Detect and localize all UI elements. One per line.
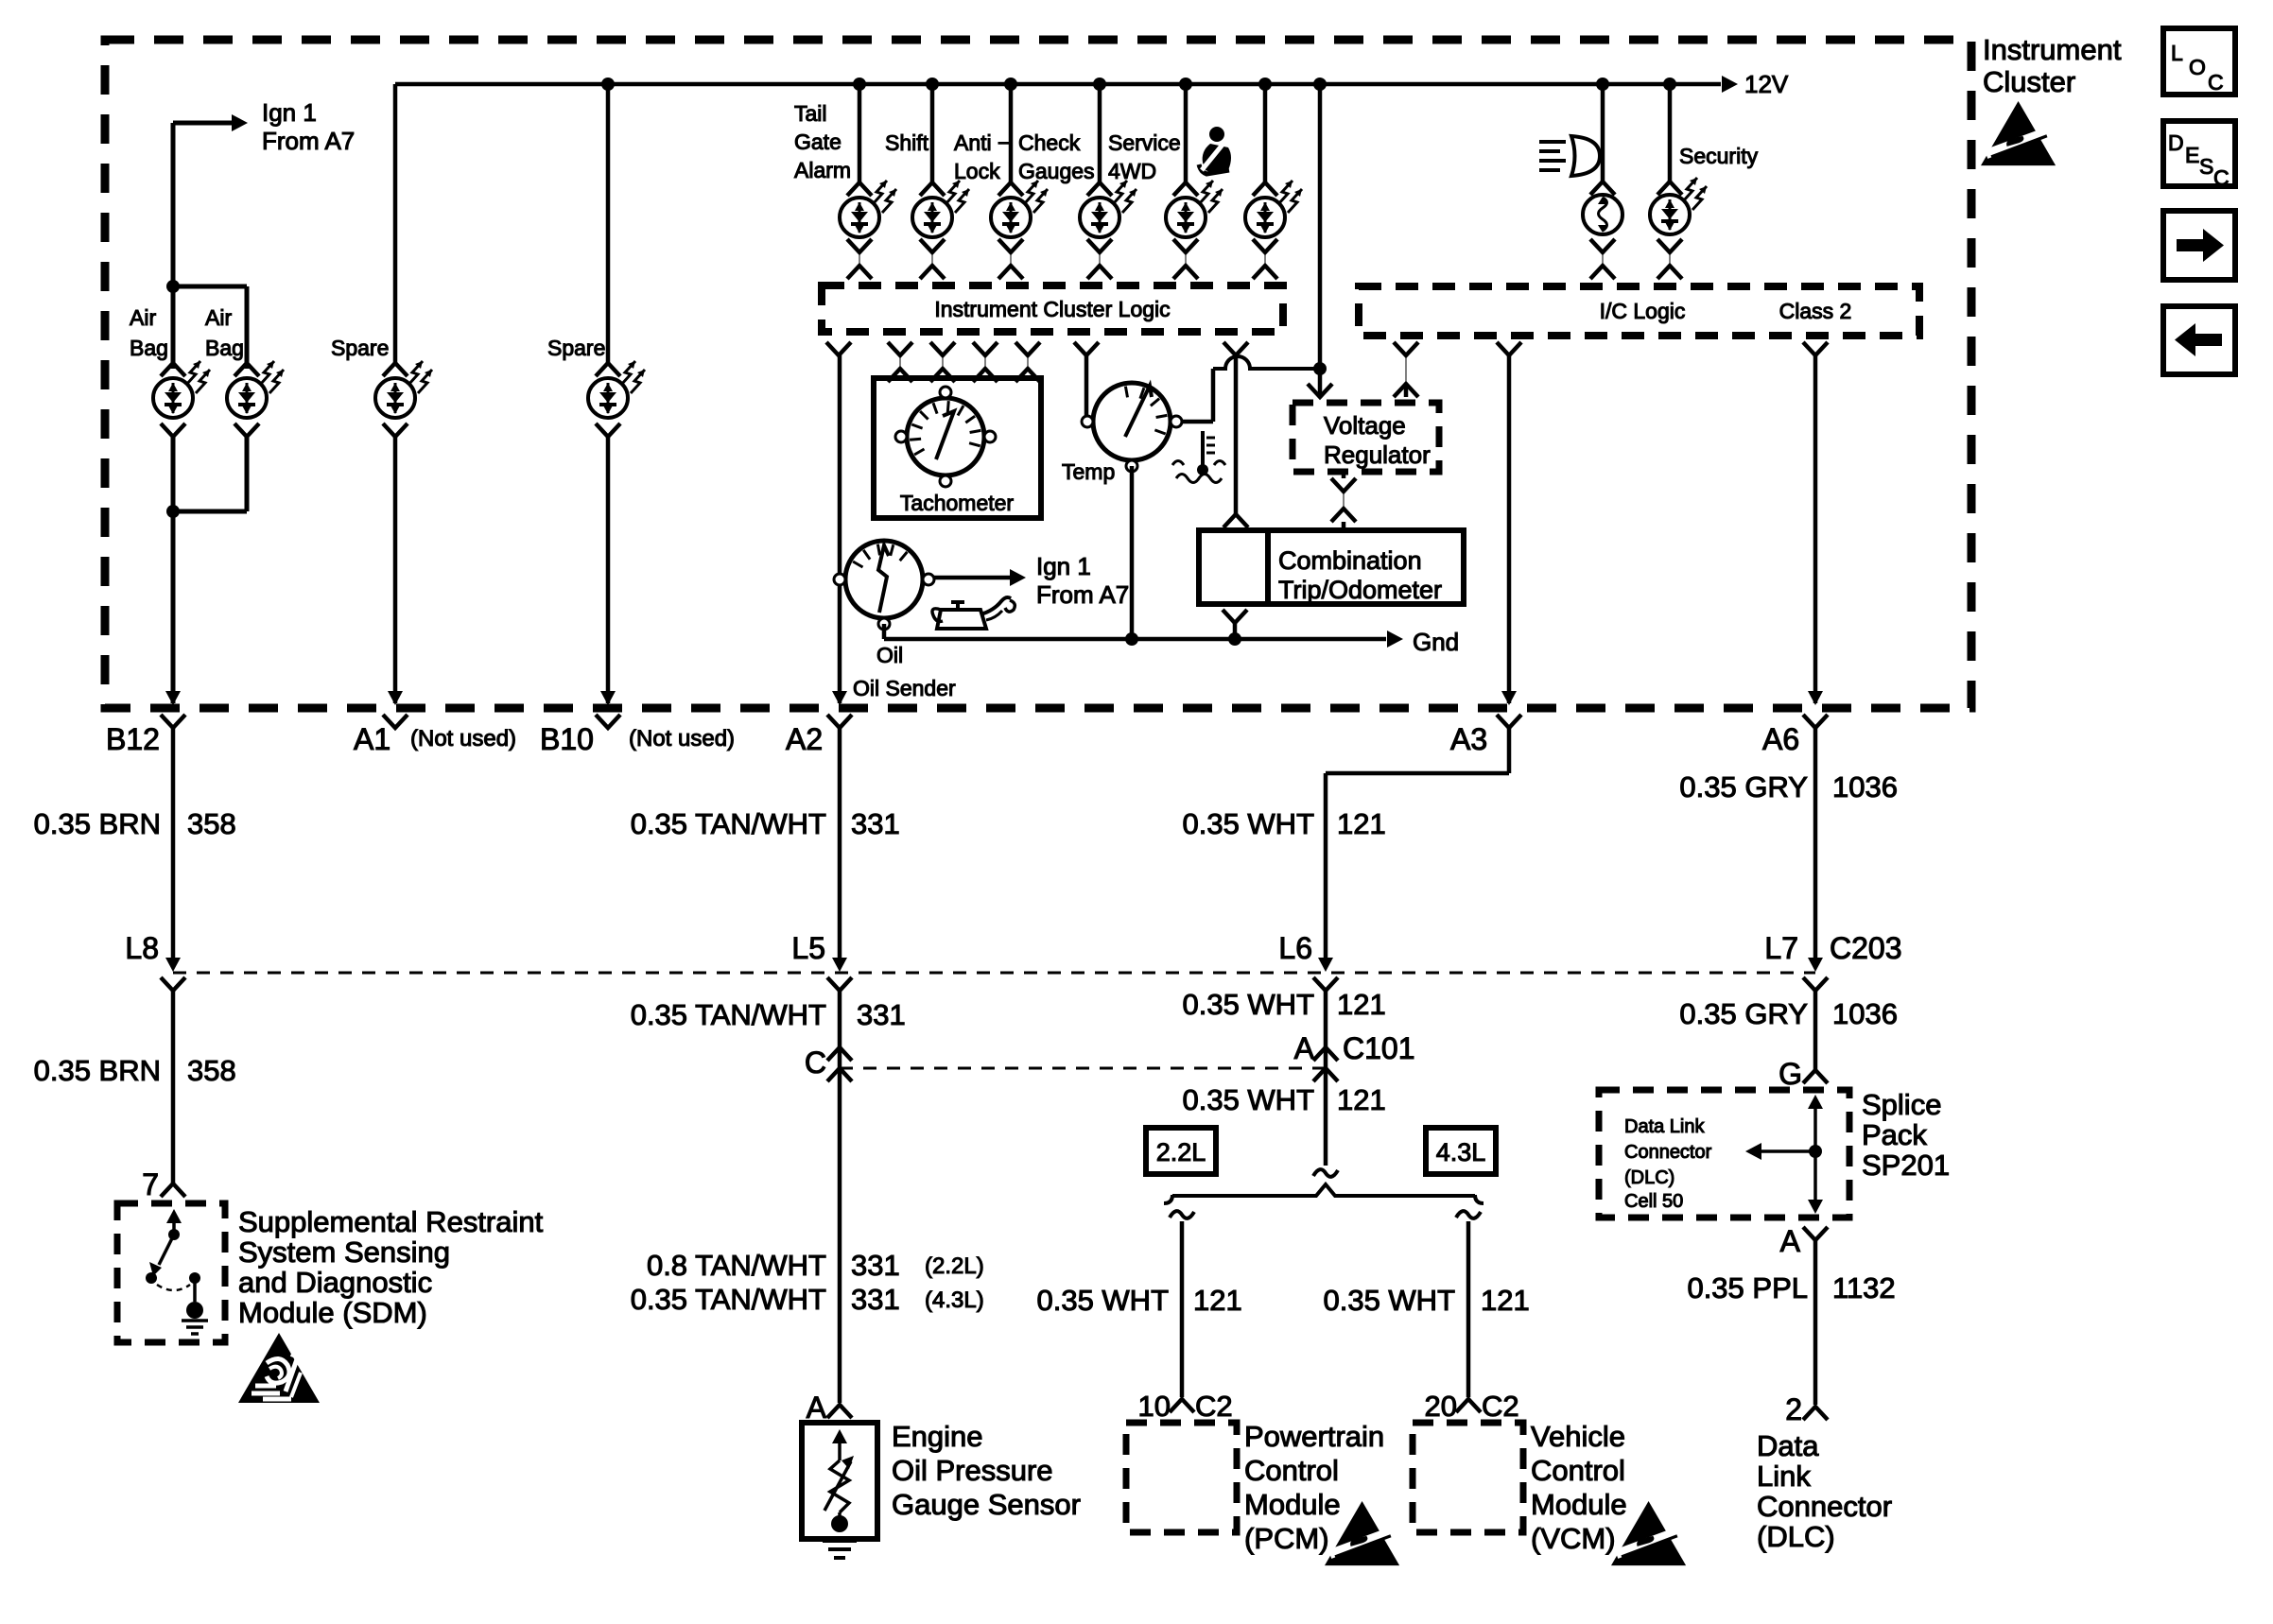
label 0.35 BRN 358 (lower) (34, 1054, 236, 1087)
connector pair below Anti &#8722; Lock LED (998, 239, 1023, 279)
wire ICL to temp gauge (1084, 355, 1089, 417)
label A C101 (1294, 1031, 1415, 1065)
wire 0.35 TAN/WHT 331 (mid) (838, 991, 842, 1403)
svg-text:Trip/Odometer: Trip/Odometer (1278, 576, 1442, 604)
junction on 12V bus x=909 (853, 78, 866, 91)
label Service 4WD (1108, 130, 1181, 183)
ESD warning symbol (SDM) (238, 1333, 320, 1403)
box splice pack SP201 (1599, 1090, 1849, 1218)
label 0.35 TAN/WHT 331 (upper) (631, 807, 900, 840)
node temp gauge at gnd (1125, 632, 1138, 646)
label 0.35 WHT 121 (mid) (1182, 988, 1385, 1021)
svg-text:0.35 WHT: 0.35 WHT (1182, 988, 1314, 1021)
connector C at C101 (827, 1047, 852, 1061)
connector pin A3 (1497, 715, 1521, 728)
label SDM (238, 1205, 544, 1329)
connector pin B10 (596, 715, 620, 728)
connector pair below lamp (1590, 239, 1615, 279)
LED indicator Security (1650, 178, 1707, 234)
connector A at C101 (1313, 1047, 1338, 1061)
label 0.35 WHT 121 (VCM) (1323, 1284, 1529, 1317)
svg-text:0.35 TAN/WHT: 0.35 TAN/WHT (631, 807, 826, 840)
svg-text:and Diagnostic: and Diagnostic (238, 1266, 432, 1299)
svg-text:Class 2: Class 2 (1779, 299, 1852, 323)
connector A below splice pack (1803, 1227, 1828, 1240)
svg-text:A2: A2 (786, 722, 823, 756)
label Anti &#8722; Lock (954, 130, 1010, 183)
box 2.2L (1146, 1128, 1216, 1174)
svg-text:Oil: Oil (876, 643, 903, 667)
wire lamp indicator (1601, 84, 1605, 181)
junction on 12V bus x=1069 (1004, 78, 1017, 91)
svg-text:0.35 PPL: 0.35 PPL (1687, 1271, 1808, 1304)
svg-text:Control: Control (1531, 1454, 1625, 1487)
svg-text:Security: Security (1679, 144, 1759, 168)
svg-text:Combination: Combination (1278, 546, 1422, 575)
svg-text:L5: L5 (791, 931, 825, 965)
12V feed arrow (1722, 70, 1789, 98)
wire Ign 1 feed (top left) (171, 123, 176, 369)
svg-text:1036: 1036 (1832, 997, 1898, 1030)
wire airbag parallel branch (173, 285, 247, 289)
box I/C Logic / Class 2 (1359, 286, 1919, 336)
label PCM (1244, 1420, 1384, 1555)
wire indicator Fasten Seat Belt (1263, 84, 1268, 182)
box PCM (1126, 1423, 1237, 1532)
svg-text:B10: B10 (540, 722, 594, 756)
box Combination Trip/Odometer (1199, 530, 1464, 604)
svg-text:A6: A6 (1762, 722, 1799, 756)
svg-text:Check: Check (1018, 130, 1081, 155)
wire 0.35 TAN/WHT 331 (upper) (838, 728, 842, 966)
arrow to Gnd (1387, 628, 1459, 656)
back arrow box (2163, 306, 2235, 374)
junction on 12V bus x=1766 (1663, 78, 1676, 91)
box VCM (1413, 1423, 1523, 1532)
svg-text:Module: Module (1531, 1488, 1627, 1521)
connector pair below Fasten Seat Belt LED (1253, 239, 1277, 279)
label 0.35 WHT 121 (upper) (1182, 807, 1385, 840)
wire A3 (white 121) inside cluster (1507, 355, 1512, 703)
svg-text:From A7: From A7 (262, 127, 355, 155)
svg-text:Gauge Sensor: Gauge Sensor (892, 1488, 1081, 1521)
svg-text:C: C (805, 1045, 826, 1080)
LED indicator Anti &#8722; Lock (991, 181, 1048, 237)
svg-text:Spare: Spare (331, 336, 389, 360)
SDM internal switch (146, 1209, 208, 1334)
ESD warning symbol (instrument cluster) (1981, 101, 2056, 165)
svg-text:C: C (2208, 70, 2224, 95)
connector pair unused ICL output x=1042 (973, 342, 998, 382)
svg-text:121: 121 (1337, 988, 1386, 1021)
connector pin 2 DLC (1803, 1407, 1828, 1420)
svg-text:Bag: Bag (130, 336, 168, 360)
svg-text:7: 7 (142, 1167, 159, 1201)
LED indicator Tail Gate Alarm (840, 181, 896, 237)
svg-text:(Not used): (Not used) (629, 726, 735, 752)
svg-text:L7: L7 (1764, 931, 1798, 965)
LED indicator Spare A1 (375, 361, 432, 437)
ground symbol below sensor (823, 1541, 857, 1558)
svg-text:B12: B12 (106, 722, 160, 756)
svg-text:Gnd: Gnd (1413, 628, 1459, 656)
junction on 12V bus x=1254 (1179, 78, 1192, 91)
arrow at L6 connector (1318, 958, 1333, 972)
svg-text:S: S (2199, 154, 2213, 179)
junction on 12V bus x=1695 (1596, 78, 1609, 91)
LED indicator Air Bag 2 (227, 361, 284, 437)
svg-text:0.35 WHT: 0.35 WHT (1182, 1083, 1314, 1116)
svg-text:Air: Air (130, 305, 156, 330)
box engine oil pressure gauge sensor (802, 1423, 877, 1539)
connector pair below voltage regulator (1331, 472, 1356, 528)
wire indicator Service 4WD (1184, 84, 1189, 182)
svg-text:121: 121 (1337, 1083, 1386, 1116)
svg-text:0.35 WHT: 0.35 WHT (1036, 1284, 1169, 1317)
LED indicator Fasten Seat Belt (1245, 181, 1302, 237)
forward arrow box (2163, 211, 2235, 280)
svg-text:Connector: Connector (1624, 1142, 1712, 1163)
junction on 12V bus x=1163 (1093, 78, 1106, 91)
svg-text:2: 2 (1785, 1392, 1802, 1426)
svg-text:331: 331 (857, 998, 906, 1031)
svg-text:Cluster: Cluster (1983, 65, 2075, 98)
connector temp gauge feed below ICL (1074, 342, 1099, 355)
node airbag top junction (166, 280, 180, 293)
svg-text:Control: Control (1244, 1454, 1339, 1487)
svg-text:Module (SDM): Module (SDM) (238, 1296, 427, 1329)
svg-text:0.35 WHT: 0.35 WHT (1323, 1284, 1455, 1317)
wire 12V feed to voltage regulator (1318, 84, 1323, 397)
svg-text:Service: Service (1108, 130, 1181, 155)
wire indicator Check Gauges (1098, 84, 1102, 182)
label 10 C2 (1138, 1390, 1233, 1423)
connector pin 7 (161, 1183, 185, 1197)
svg-text:0.35 WHT: 0.35 WHT (1182, 807, 1314, 840)
wire 0.35 GRY 1036 (lower) (1813, 991, 1818, 1070)
svg-text:Tachometer: Tachometer (900, 491, 1015, 515)
box Instrument Cluster Logic (822, 285, 1283, 332)
arrow A2 oil sender wire exits cluster (832, 691, 847, 705)
svg-text:(VCM): (VCM) (1531, 1522, 1616, 1555)
svg-text:Cell 50: Cell 50 (1624, 1191, 1683, 1212)
svg-text:0.35 BRN: 0.35 BRN (34, 807, 161, 840)
wire ICL to combination trip/odometer (1234, 355, 1239, 514)
label 0.35 GRY 1036 (upper) (1679, 770, 1898, 803)
wire hop over trip/odometer wire (1213, 356, 1314, 369)
label splice pack SP201 (1862, 1088, 1950, 1182)
lamp indicator (illumination) (1583, 181, 1622, 234)
label Tail Gate Alarm (794, 101, 851, 182)
connector pin A1 (383, 715, 408, 728)
connector pair unused ICL output x=1087 (1015, 342, 1040, 382)
arrow A1 wire exits cluster (388, 691, 403, 705)
svg-text:L: L (2171, 41, 2183, 65)
label L7 C203 (1764, 931, 1901, 965)
label 0.35 WHT 121 (below C101) (1182, 1083, 1385, 1116)
connector pin 10 C2 (1170, 1399, 1194, 1412)
svg-text:121: 121 (1193, 1284, 1242, 1317)
wire spare B10 (606, 84, 611, 363)
label 0.35 WHT 121 (PCM) (1036, 1284, 1241, 1317)
svg-text:1132: 1132 (1832, 1271, 1896, 1304)
icon oil can (932, 597, 1015, 629)
svg-text:A1: A1 (354, 722, 390, 756)
connector pair below Shift LED (920, 239, 945, 279)
wire 0.35 GRY 1036 (upper) (1813, 728, 1818, 966)
wire indicator Shift (930, 84, 935, 182)
label VCM (1531, 1420, 1627, 1555)
label data link connector cell 50 (1624, 1116, 1712, 1212)
arrow B10 wire exits cluster (600, 691, 616, 705)
svg-text:4WD: 4WD (1108, 159, 1156, 183)
wire ICL to oil gauge / A2 oil sender wire (838, 355, 842, 703)
svg-text:C101: C101 (1343, 1031, 1415, 1065)
connector pair unused ICL output x=952 (888, 342, 912, 382)
svg-text:L6: L6 (1278, 931, 1312, 965)
label 20 C2 (1425, 1390, 1519, 1423)
junction on 12V bus x=643 (601, 78, 615, 91)
connector pin A6 (1803, 715, 1828, 728)
arrow at L7 connector (1808, 958, 1823, 972)
box 4.3L (1426, 1128, 1496, 1174)
wire indicator Tail Gate Alarm (858, 84, 862, 182)
wire A6 (gray 1036) inside cluster (1813, 355, 1818, 703)
svg-text:Oil Pressure: Oil Pressure (892, 1454, 1053, 1487)
svg-text:A: A (1294, 1031, 1315, 1065)
svg-text:Engine: Engine (892, 1420, 983, 1453)
svg-text:Powertrain: Powertrain (1244, 1420, 1384, 1453)
svg-text:Instrument Cluster Logic: Instrument Cluster Logic (934, 297, 1170, 321)
wire A3 jog below border (1507, 728, 1512, 773)
junction on 12V bus x=1338 (1258, 78, 1272, 91)
svg-text:Shift: Shift (885, 130, 929, 155)
svg-text:C2: C2 (1195, 1390, 1233, 1423)
connector trip/odometer feed below ICL (1223, 342, 1248, 355)
wire 12V bus (395, 82, 1721, 87)
icon coolant thermometer (1172, 431, 1225, 483)
temp gauge (1082, 383, 1182, 472)
svg-text:Temp: Temp (1062, 459, 1115, 484)
svg-text:121: 121 (1337, 807, 1386, 840)
svg-text:Voltage: Voltage (1324, 411, 1406, 440)
junction on 12V bus x=986 (926, 78, 939, 91)
connector line C101 (840, 1067, 1326, 1070)
wire break tilde VCM branch (1456, 1211, 1481, 1218)
label Check Gauges (1018, 130, 1095, 183)
svg-text:0.35 GRY: 0.35 GRY (1679, 770, 1808, 803)
svg-text:Anti −: Anti − (954, 130, 1010, 155)
svg-text:Alarm: Alarm (794, 158, 851, 182)
svg-text:358: 358 (187, 807, 236, 840)
svg-text:A: A (807, 1391, 827, 1425)
sensor internal variable resistor (824, 1429, 854, 1532)
wire airbag bottom loop (171, 437, 176, 703)
connector A3 wire below I/C logic (1497, 342, 1521, 355)
connector L7 lower half (1803, 977, 1828, 991)
svg-text:Lock: Lock (954, 159, 1000, 183)
svg-text:Regulator: Regulator (1324, 441, 1431, 469)
connector L6 lower half (1313, 977, 1338, 991)
svg-text:10: 10 (1138, 1390, 1171, 1423)
connector pin A sensor (827, 1405, 852, 1418)
svg-text:(2.2L): (2.2L) (925, 1253, 984, 1279)
LOC reference box (2163, 28, 2235, 95)
svg-text:C: C (2213, 165, 2230, 190)
LED indicator Shift (912, 181, 969, 237)
label 0.35 BRN 358 (upper) (34, 807, 236, 840)
box SDM (117, 1203, 225, 1342)
connector pair voltage regulator top-right (1394, 342, 1418, 397)
svg-text:C203: C203 (1830, 931, 1902, 965)
wire spare A1 (393, 84, 398, 363)
LED indicator Spare B10 (588, 361, 645, 437)
arrow oil gauge to Ign 1 (934, 552, 1129, 609)
svg-text:(PCM): (PCM) (1244, 1522, 1329, 1555)
svg-text:0.35 TAN/WHT: 0.35 TAN/WHT (631, 1283, 826, 1316)
wire break tilde above brace (1313, 1169, 1338, 1177)
tachometer gauge (895, 387, 996, 487)
svg-text:(DLC): (DLC) (1624, 1167, 1674, 1188)
arrow at L8 connector (165, 958, 181, 972)
tachometer box (874, 378, 1041, 518)
label 0.8 TAN/WHT 331 (2.2L) (647, 1249, 984, 1282)
svg-text:Instrument: Instrument (1983, 33, 2122, 66)
wire ground bus (884, 637, 1386, 642)
connector A6 class 2 wire below I/C logic (1803, 342, 1828, 355)
connector oil sender output (A2) below ICL (826, 342, 851, 355)
svg-text:Supplemental Restraint: Supplemental Restraint (238, 1205, 544, 1238)
svg-text:Air: Air (205, 305, 232, 330)
icon headlamp beams (1539, 136, 1600, 176)
connector G splice pack (1803, 1070, 1828, 1083)
label 0.35 TAN/WHT 331 (4.3L) (631, 1283, 984, 1316)
svg-text:Gate: Gate (794, 130, 842, 154)
label Instrument Cluster (1983, 33, 2122, 98)
svg-text:Pack: Pack (1862, 1118, 1927, 1151)
svg-text:Tail: Tail (794, 101, 827, 126)
wire security indicator (1668, 84, 1673, 181)
svg-text:Spare: Spare (547, 336, 605, 360)
svg-text:A: A (1780, 1224, 1801, 1258)
connector L5 lower half (827, 977, 852, 991)
svg-text:Gauges: Gauges (1018, 159, 1095, 183)
wire temp gauge to gnd (1130, 466, 1135, 639)
connector pair unused ICL output x=997 (930, 342, 955, 382)
svg-text:2.2L: 2.2L (1156, 1138, 1206, 1166)
svg-text:4.3L: 4.3L (1436, 1138, 1486, 1166)
connector pin 20 C2 (1456, 1399, 1481, 1412)
svg-text:331: 331 (851, 807, 900, 840)
connector L8 lower half (161, 977, 185, 991)
svg-text:From A7: From A7 (1036, 580, 1129, 609)
svg-text:Data Link: Data Link (1624, 1116, 1705, 1137)
svg-text:(DLC): (DLC) (1757, 1520, 1835, 1553)
arrow A6 wire exits cluster (1808, 691, 1823, 705)
svg-text:331: 331 (851, 1249, 900, 1282)
label 0.35 GRY 1036 (lower) (1679, 997, 1898, 1030)
LED indicator Service 4WD (1166, 181, 1223, 237)
label Air Bag 2 (205, 305, 244, 360)
junction on 12V bus x=1396 (1313, 78, 1327, 91)
connector pair below Check Gauges LED (1087, 239, 1112, 279)
connector line C203 (L8/L5/L6/L7) (173, 972, 1815, 975)
connector at combination box top (1223, 514, 1248, 527)
svg-text:Connector: Connector (1757, 1490, 1892, 1523)
label Air Bag 1 (130, 305, 168, 360)
box Voltage Regulator (1293, 403, 1439, 472)
svg-text:331: 331 (851, 1283, 900, 1316)
label 0.35 PPL 1132 (1687, 1271, 1895, 1304)
svg-text:(Not used): (Not used) (410, 726, 516, 752)
wire temp gauge to voltage regulator junction (1183, 420, 1213, 424)
svg-text:1036: 1036 (1832, 770, 1898, 803)
LED indicator Air Bag 1 (153, 361, 210, 437)
svg-text:Splice: Splice (1862, 1088, 1941, 1121)
ESD warning symbol (PCM) (1325, 1501, 1399, 1565)
wire 0.35 BRN 358 (upper) (171, 728, 176, 966)
splice pack internal bus (1745, 1095, 1823, 1214)
connector below combination box (1223, 610, 1247, 623)
svg-text:20: 20 (1425, 1390, 1457, 1423)
wire 0.35 BRN 358 (lower) (171, 991, 176, 1183)
svg-text:E: E (2185, 143, 2199, 167)
ESD warning symbol (VCM) (1611, 1501, 1686, 1565)
label engine oil pressure gauge sensor (892, 1420, 1081, 1521)
connector pin B12 (161, 715, 185, 728)
svg-text:D: D (2168, 130, 2184, 155)
svg-text:O: O (2189, 55, 2206, 79)
arrow at L5 connector (832, 958, 847, 972)
connector pair below Service 4WD LED (1173, 239, 1198, 279)
node airbag bottom junction (166, 505, 180, 518)
label Shift (885, 130, 929, 155)
arrow to Ign 1 From A7 (232, 98, 355, 155)
svg-text:358: 358 (187, 1054, 236, 1087)
node combination box at gnd (1228, 632, 1241, 646)
arrow B12 wire exits cluster (165, 691, 181, 705)
brace engine variants (1164, 1184, 1484, 1203)
connector voltage regulator top-left (1308, 384, 1332, 397)
svg-text:0.35 BRN: 0.35 BRN (34, 1054, 161, 1087)
svg-text:I/C Logic: I/C Logic (1600, 299, 1686, 323)
svg-text:System Sensing: System Sensing (238, 1235, 450, 1269)
svg-text:Ign 1: Ign 1 (1036, 552, 1091, 580)
svg-text:Oil Sender: Oil Sender (853, 676, 956, 700)
icon fasten seat belt (1199, 127, 1231, 174)
connector pin A2 (827, 715, 852, 728)
wire I/C logic to VR connector (1404, 384, 1409, 397)
label data link connector (DLC) (1757, 1429, 1892, 1553)
svg-text:0.8 TAN/WHT: 0.8 TAN/WHT (647, 1249, 826, 1282)
connector pair below security LED (1657, 239, 1682, 279)
svg-text:0.35 GRY: 0.35 GRY (1679, 997, 1808, 1030)
svg-text:SP201: SP201 (1862, 1149, 1950, 1182)
svg-text:Data: Data (1757, 1429, 1819, 1462)
wire 0.35 WHT 121 to PCM (1180, 1221, 1185, 1397)
wire oil gauge to gnd (882, 624, 887, 639)
connector pair below Tail Gate Alarm LED (847, 239, 872, 279)
wire indicator Anti &#8722; Lock (1009, 84, 1014, 182)
svg-text:12V: 12V (1744, 70, 1789, 98)
svg-text:0.35 TAN/WHT: 0.35 TAN/WHT (631, 998, 826, 1031)
svg-text:L8: L8 (125, 931, 159, 965)
svg-text:C2: C2 (1482, 1390, 1519, 1423)
node voltage regulator junction (1313, 362, 1327, 375)
svg-text:Ign 1: Ign 1 (262, 98, 317, 127)
LED indicator Check Gauges (1080, 181, 1136, 237)
label 0.35 TAN/WHT 331 (mid) (631, 998, 906, 1031)
